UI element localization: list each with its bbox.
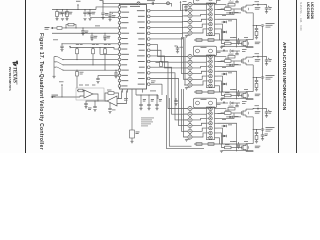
svg-text:www.ti.com: www.ti.com [14,72,18,85]
svg-text:INSTRUMENTS: INSTRUMENTS [8,67,12,91]
